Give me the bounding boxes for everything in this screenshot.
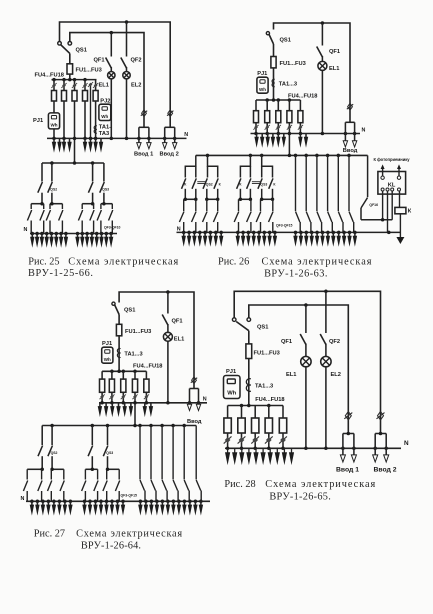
lamp EL1: [108, 72, 115, 79]
svg-text:Рис. 26: Рис. 26: [218, 256, 249, 267]
switch QS3 pole 2: [103, 426, 108, 470]
nodes on lower bus: [50, 424, 186, 428]
svg-text:KL: KL: [388, 182, 396, 188]
caption figure 25: [28, 256, 179, 279]
svg-text:Схема электрическая: Схема электрическая: [262, 257, 372, 268]
switch QS2 pole 2: [48, 426, 53, 470]
sub-bus a: [27, 468, 41, 470]
svg-text:Ввод 2: Ввод 2: [374, 467, 397, 474]
nodes on N bus: [100, 401, 200, 405]
svg-text:N: N: [21, 496, 25, 502]
svg-text:QS1: QS1: [124, 308, 135, 314]
breaker QF1: [300, 305, 306, 356]
fuse column FU8: [279, 406, 287, 449]
group A drop left: [185, 155, 196, 177]
switch QS1: [232, 318, 250, 331]
wire QS1 to fuse: [69, 53, 71, 63]
switch QS3 pole 2: [258, 178, 262, 199]
switch QS3 pole 2: [100, 163, 105, 204]
current transformer TA1...3: [272, 79, 275, 86]
svg-text:Схема электрическая: Схема электрическая: [76, 529, 182, 540]
sub-bus c: [85, 468, 97, 470]
switch QS2 pole 1: [192, 178, 196, 199]
breaker QF1: [317, 23, 323, 61]
svg-text:N: N: [362, 128, 366, 134]
nodes on lower N bus mid: [83, 500, 125, 504]
input Vvod 2 fork: [163, 127, 177, 149]
wire top bus A: [234, 291, 380, 433]
wire coil to ground arrow: [399, 214, 401, 238]
wire EL1 to N bus: [110, 79, 112, 138]
group B sub-bus 2: [260, 198, 274, 202]
input Vvod cable mark: [347, 103, 353, 110]
svg-text:QS1: QS1: [280, 38, 291, 44]
wire EL2 to N bus: [325, 367, 327, 449]
branch breakers QF3-QF10: [27, 204, 112, 234]
feeder arrows QF3-QF6 group: [30, 234, 68, 248]
svg-text:Схема электрическая: Схема электрическая: [265, 479, 375, 490]
svg-text:Ввод 1: Ввод 1: [134, 152, 153, 158]
svg-text:FU4...FU18: FU4...FU18: [35, 73, 64, 79]
svg-text:ВРУ-1-26-63.: ВРУ-1-26-63.: [264, 268, 327, 279]
N bus of schematic 4: [225, 447, 401, 449]
svg-text:FU4...FU18: FU4...FU18: [255, 397, 284, 403]
feeder arrows group 2: [82, 501, 125, 515]
lamp EL1: [301, 356, 311, 366]
switch QS3 pole 1: [247, 178, 251, 199]
switch QS3 pole 1: [88, 163, 93, 204]
feeder arrows group 2: [83, 138, 103, 152]
svg-text:ВРУ-1-26-64.: ВРУ-1-26-64.: [81, 541, 141, 552]
meter PJ1: [48, 113, 59, 129]
svg-text:QF1: QF1: [281, 339, 292, 345]
current transformer TA1...3: [246, 379, 250, 392]
contactor contact K (A1): [182, 178, 186, 199]
group A branch breakers: [179, 199, 218, 232]
ground arrow: [396, 237, 404, 244]
KL pin3 wire: [391, 191, 393, 220]
QS3 linkage: [252, 182, 260, 184]
group A sub-bus 1: [184, 198, 198, 202]
fuse column FU5: [265, 100, 270, 134]
meter PJ1: [224, 376, 241, 399]
group B drop right pole2: [261, 166, 263, 177]
node feed to lower bus: [50, 161, 94, 165]
input Vvod 2 cable mark: [377, 411, 385, 420]
nodes on lower N bus group B: [236, 231, 277, 235]
fuse column FU6 (feeds lower section): [72, 80, 77, 163]
nodes on lower N bus wide group: [294, 231, 391, 235]
sub-bus d: [101, 203, 112, 205]
node on bus B for QF1: [110, 31, 114, 35]
N bus of schematic 1: [47, 137, 187, 139]
svg-text:Ввод 2: Ввод 2: [160, 152, 179, 158]
input Vvod 1 cable mark: [344, 411, 352, 420]
branch breakers left groups: [23, 469, 119, 501]
svg-text:QF3-QF15: QF3-QF15: [276, 224, 293, 228]
feeder arrows group: [225, 448, 294, 465]
fuse column FU4: [100, 371, 105, 403]
svg-text:QS3: QS3: [106, 451, 113, 455]
svg-text:Ввод: Ввод: [187, 419, 202, 425]
meter PJ1: [102, 347, 113, 363]
input Vvod fork: [343, 122, 357, 147]
switch QS1: [58, 42, 72, 54]
wire bus corner to QF16: [367, 155, 369, 197]
switch QS2 pole 2: [48, 163, 53, 204]
input Vvod 2 cable mark: [167, 110, 173, 117]
wire EL1 to N bus: [305, 367, 307, 449]
group B drop right: [262, 155, 273, 177]
svg-text:Wh: Wh: [227, 391, 236, 397]
svg-text:ВРУ-1-26-65.: ВРУ-1-26-65.: [269, 491, 330, 502]
nodes on fuse bus: [240, 404, 271, 408]
meter PJ2: [99, 104, 111, 120]
lower distribution bus: [42, 425, 196, 427]
fuse column FU6: [276, 100, 281, 134]
wire top bus A: [60, 22, 171, 127]
svg-text:EL1: EL1: [329, 66, 339, 72]
label TA1-TA3: [99, 125, 111, 138]
fuse FU1...FU3: [246, 344, 252, 359]
fuse column FU8 with CT: [93, 80, 98, 139]
svg-text:QS3: QS3: [102, 188, 109, 192]
svg-text:TA1-: TA1-: [99, 125, 111, 131]
fuse column FU6: [121, 371, 126, 403]
svg-text:FU1...FU3: FU1...FU3: [254, 350, 280, 356]
group A sub-bus 2: [205, 198, 219, 202]
breaker QF2: [320, 291, 326, 356]
nodes on N bus: [52, 137, 176, 141]
nodes on N bus: [254, 132, 356, 136]
input Vvod 2 fork: [373, 432, 389, 462]
svg-text:Рис. 27: Рис. 27: [34, 528, 65, 539]
QS2 linkage: [197, 182, 205, 184]
svg-text:QS2: QS2: [51, 451, 58, 455]
switch QS2 pole 1: [38, 426, 43, 470]
breaker QF16: [361, 198, 368, 220]
node on bus A for QF2: [324, 290, 328, 294]
svg-text:К фотоприемнику: К фотоприемнику: [374, 157, 411, 162]
current transformer TA1...3: [117, 348, 120, 357]
nodes on fuse bus: [110, 370, 137, 374]
svg-text:ВРУ-1-25-66.: ВРУ-1-25-66.: [28, 268, 93, 279]
feeder arrows QF7-QF10 group: [75, 234, 113, 248]
nodes on lower bus: [206, 154, 351, 158]
input Vvod 1 fork: [340, 432, 356, 462]
fuse column FU7 (feeds lower section): [287, 100, 292, 155]
contactor contact K (B1): [237, 178, 241, 199]
nodes on lower N bus wide: [139, 500, 203, 504]
wide feeder group breakers: [140, 426, 201, 502]
breaker QF1: [162, 292, 168, 332]
nodes on sub-buses: [40, 468, 109, 472]
caption figure 28: [224, 479, 375, 502]
sub-bus d: [107, 468, 120, 470]
svg-text:QF1: QF1: [94, 58, 105, 64]
wire EL2 to N bus: [126, 79, 128, 138]
KL top pin 1 with arrow: [381, 164, 385, 179]
fuse column FU8: [144, 371, 149, 403]
breaker QF1: [106, 33, 112, 72]
feeder arrows fuse group: [254, 134, 286, 148]
fuse column FU7: [265, 406, 273, 449]
lamp EL1: [163, 332, 172, 341]
sub-bus b: [51, 468, 64, 470]
breaker QF2: [121, 22, 127, 72]
relay coil K: [395, 207, 406, 213]
wire QS1 to fuse: [118, 315, 120, 325]
wire tap to N bus: [88, 82, 93, 138]
feeder arrows pair: [143, 403, 153, 417]
current transformer TA1-TA3: [94, 126, 97, 133]
feeder arrows group 1: [30, 501, 73, 515]
svg-text:N: N: [203, 397, 207, 403]
svg-text:QS2: QS2: [206, 183, 213, 187]
fuse group bus: [256, 99, 300, 101]
svg-text:FU1...FU3: FU1...FU3: [125, 329, 151, 335]
input Vvod cable mark: [191, 377, 197, 384]
wide feeder group breakers: [296, 155, 354, 232]
wire top bus: [274, 23, 351, 122]
svg-text:N: N: [24, 227, 28, 233]
KL pin1 wire: [382, 191, 384, 220]
KL pin2 wire to N: [387, 191, 389, 232]
wire fuse to bus: [273, 68, 275, 100]
input Vvod 1 cable mark: [141, 110, 147, 117]
wire QF16 to KL pins: [361, 219, 392, 221]
svg-text:EL2: EL2: [331, 372, 341, 378]
wire EL1 to N bus: [167, 341, 169, 403]
lower distribution bus: [196, 154, 368, 156]
wire QS1 to fuse: [273, 44, 275, 57]
svg-text:FU1...FU3: FU1...FU3: [280, 61, 306, 67]
svg-text:К: К: [408, 209, 412, 215]
svg-text:QF1: QF1: [172, 319, 183, 325]
N bus lower schematic 3: [26, 500, 210, 502]
fuse group bus: [102, 370, 146, 372]
nodes on bus C: [52, 78, 87, 82]
sub-bus c: [82, 203, 93, 205]
node on bus A for QF2: [125, 20, 129, 24]
fuse column FU7: [82, 80, 87, 139]
svg-text:QF1: QF1: [329, 49, 340, 55]
switch QS2 pole 1: [38, 163, 43, 204]
node on bus B for QF1: [304, 303, 308, 307]
nodes on lower N bus: [31, 232, 113, 236]
group A drop left pole2: [195, 166, 197, 177]
wire fuse to bus C: [69, 74, 71, 80]
svg-text:Ввод 1: Ввод 1: [336, 467, 359, 474]
wire EL1 to N bus: [321, 70, 323, 133]
sub-bus a: [31, 203, 44, 205]
svg-text:FU1...FU3: FU1...FU3: [76, 68, 102, 74]
svg-text:PJ1: PJ1: [33, 118, 43, 124]
N bus of schematic 2: [251, 133, 361, 135]
wire top bus B: [70, 33, 144, 128]
fuse column FU5: [109, 371, 114, 403]
KL bottom pins: [381, 188, 400, 191]
sub-bus b: [50, 203, 62, 205]
N bus lower schematic 2: [177, 231, 402, 233]
KL pin4 wire to relay coil: [399, 191, 401, 207]
node QF16 junction: [381, 218, 385, 222]
fuse column FU4: [253, 100, 258, 134]
feeder arrows group 1: [52, 138, 72, 152]
group A drop right: [208, 155, 218, 177]
nodes on lower N bus left: [30, 500, 72, 504]
svg-text:TA3: TA3: [99, 131, 109, 137]
feeder arrows group A: [182, 232, 224, 246]
lamp EL2: [321, 356, 331, 366]
fuse FU1...FU3: [271, 57, 276, 68]
svg-text:TA1...3: TA1...3: [255, 384, 273, 390]
svg-text:TA1...3: TA1...3: [124, 352, 142, 358]
group B drop left: [240, 155, 250, 177]
N bus lower: [30, 233, 117, 235]
svg-text:N: N: [184, 132, 188, 138]
svg-text:EL1: EL1: [174, 337, 184, 343]
svg-text:QF16: QF16: [369, 203, 378, 207]
nodes on sub-buses: [40, 202, 105, 206]
lamp EL1: [318, 61, 327, 70]
fuse column FU8: [298, 100, 303, 134]
svg-text:PJ1: PJ1: [102, 341, 112, 347]
svg-text:TA1...3: TA1...3: [279, 82, 297, 88]
group A drop right pole2: [207, 166, 209, 177]
svg-text:QS3: QS3: [260, 183, 267, 187]
feeder arrows pair: [298, 134, 308, 148]
node on bus for QF1: [166, 290, 170, 294]
input Vvod 1 fork: [137, 127, 151, 149]
wire QS1 to fuse: [248, 331, 250, 344]
wire fuse to bus: [248, 359, 250, 406]
KL top pin 2 with arrow: [397, 164, 401, 179]
svg-text:FU4...FU18: FU4...FU18: [288, 94, 317, 100]
fuse FU1...FU3: [67, 64, 73, 74]
contactor contact K (A2): [214, 178, 218, 199]
wire top bus: [119, 292, 194, 389]
svg-text:Ввод: Ввод: [343, 148, 358, 154]
fuse group bus: [228, 405, 283, 407]
svg-text:FU4...FU18: FU4...FU18: [133, 363, 162, 369]
node on bus for QF1: [321, 21, 325, 25]
fuse column FU5: [61, 80, 66, 139]
wire fuse to bus: [118, 336, 120, 372]
svg-text:QF2: QF2: [131, 58, 142, 64]
svg-text:QS2: QS2: [50, 188, 57, 192]
svg-text:QS1: QS1: [76, 48, 87, 54]
svg-text:QF3-QF15: QF3-QF15: [121, 493, 138, 497]
wire PJ1 to N bus: [53, 129, 55, 139]
svg-text:QS1: QS1: [257, 325, 268, 331]
svg-text:EL1: EL1: [286, 372, 296, 378]
svg-text:Схема электрическая: Схема электрическая: [68, 257, 178, 268]
feeder arrows fuse group: [98, 403, 133, 417]
svg-text:Wh: Wh: [101, 114, 108, 119]
feeder arrows wide group: [293, 232, 357, 246]
svg-text:N: N: [404, 440, 409, 447]
nodes on fuse bus: [265, 98, 291, 102]
svg-text:PJ1: PJ1: [257, 71, 267, 77]
fuse column FU4 with PJ1 meter: [51, 80, 56, 113]
group B sub-bus 1: [239, 198, 253, 202]
feeder arrows wide group: [138, 501, 203, 515]
svg-text:Рис. 25: Рис. 25: [28, 256, 59, 267]
svg-text:PJ1: PJ1: [226, 369, 236, 375]
fuse column FU7 (feeds lower section): [132, 371, 137, 425]
svg-text:QF2: QF2: [329, 339, 340, 345]
group B branch breakers: [234, 199, 273, 232]
input Vvod fork: [187, 389, 200, 411]
svg-text:QF3-QF10: QF3-QF10: [104, 226, 121, 230]
svg-text:EL2: EL2: [131, 83, 141, 89]
fuse column FU4: [224, 406, 232, 449]
svg-text:N: N: [177, 227, 181, 233]
meter PJ1: [257, 77, 268, 93]
fuse column FU6: [251, 406, 259, 449]
lamp EL2: [123, 72, 130, 79]
nodes on N bus: [226, 447, 388, 451]
svg-text:EL1: EL1: [99, 83, 109, 89]
svg-text:Рис. 28: Рис. 28: [224, 479, 255, 490]
caption figure 26: [218, 256, 372, 279]
bus C (fuse group bus): [52, 79, 97, 81]
contactor contact K (B2): [269, 178, 273, 199]
fuse FU1...FU3: [116, 324, 121, 336]
switch QS2 pole 2: [203, 178, 207, 199]
caption figure 27: [34, 528, 183, 551]
lower distribution bus: [42, 162, 104, 164]
N bus of schematic 3: [99, 402, 207, 404]
switch QS1: [112, 302, 119, 314]
wire top bus B: [249, 305, 348, 434]
switch QS3 pole 1: [88, 426, 93, 470]
fuse column FU5: [238, 406, 246, 449]
switch QS1: [266, 32, 273, 44]
group B drop left pole2: [249, 166, 251, 177]
photo relay KL box: [378, 172, 406, 195]
svg-text:PJ2: PJ2: [100, 98, 110, 104]
nodes on lower N bus group A: [182, 231, 223, 235]
feeder arrows group B: [236, 232, 277, 246]
